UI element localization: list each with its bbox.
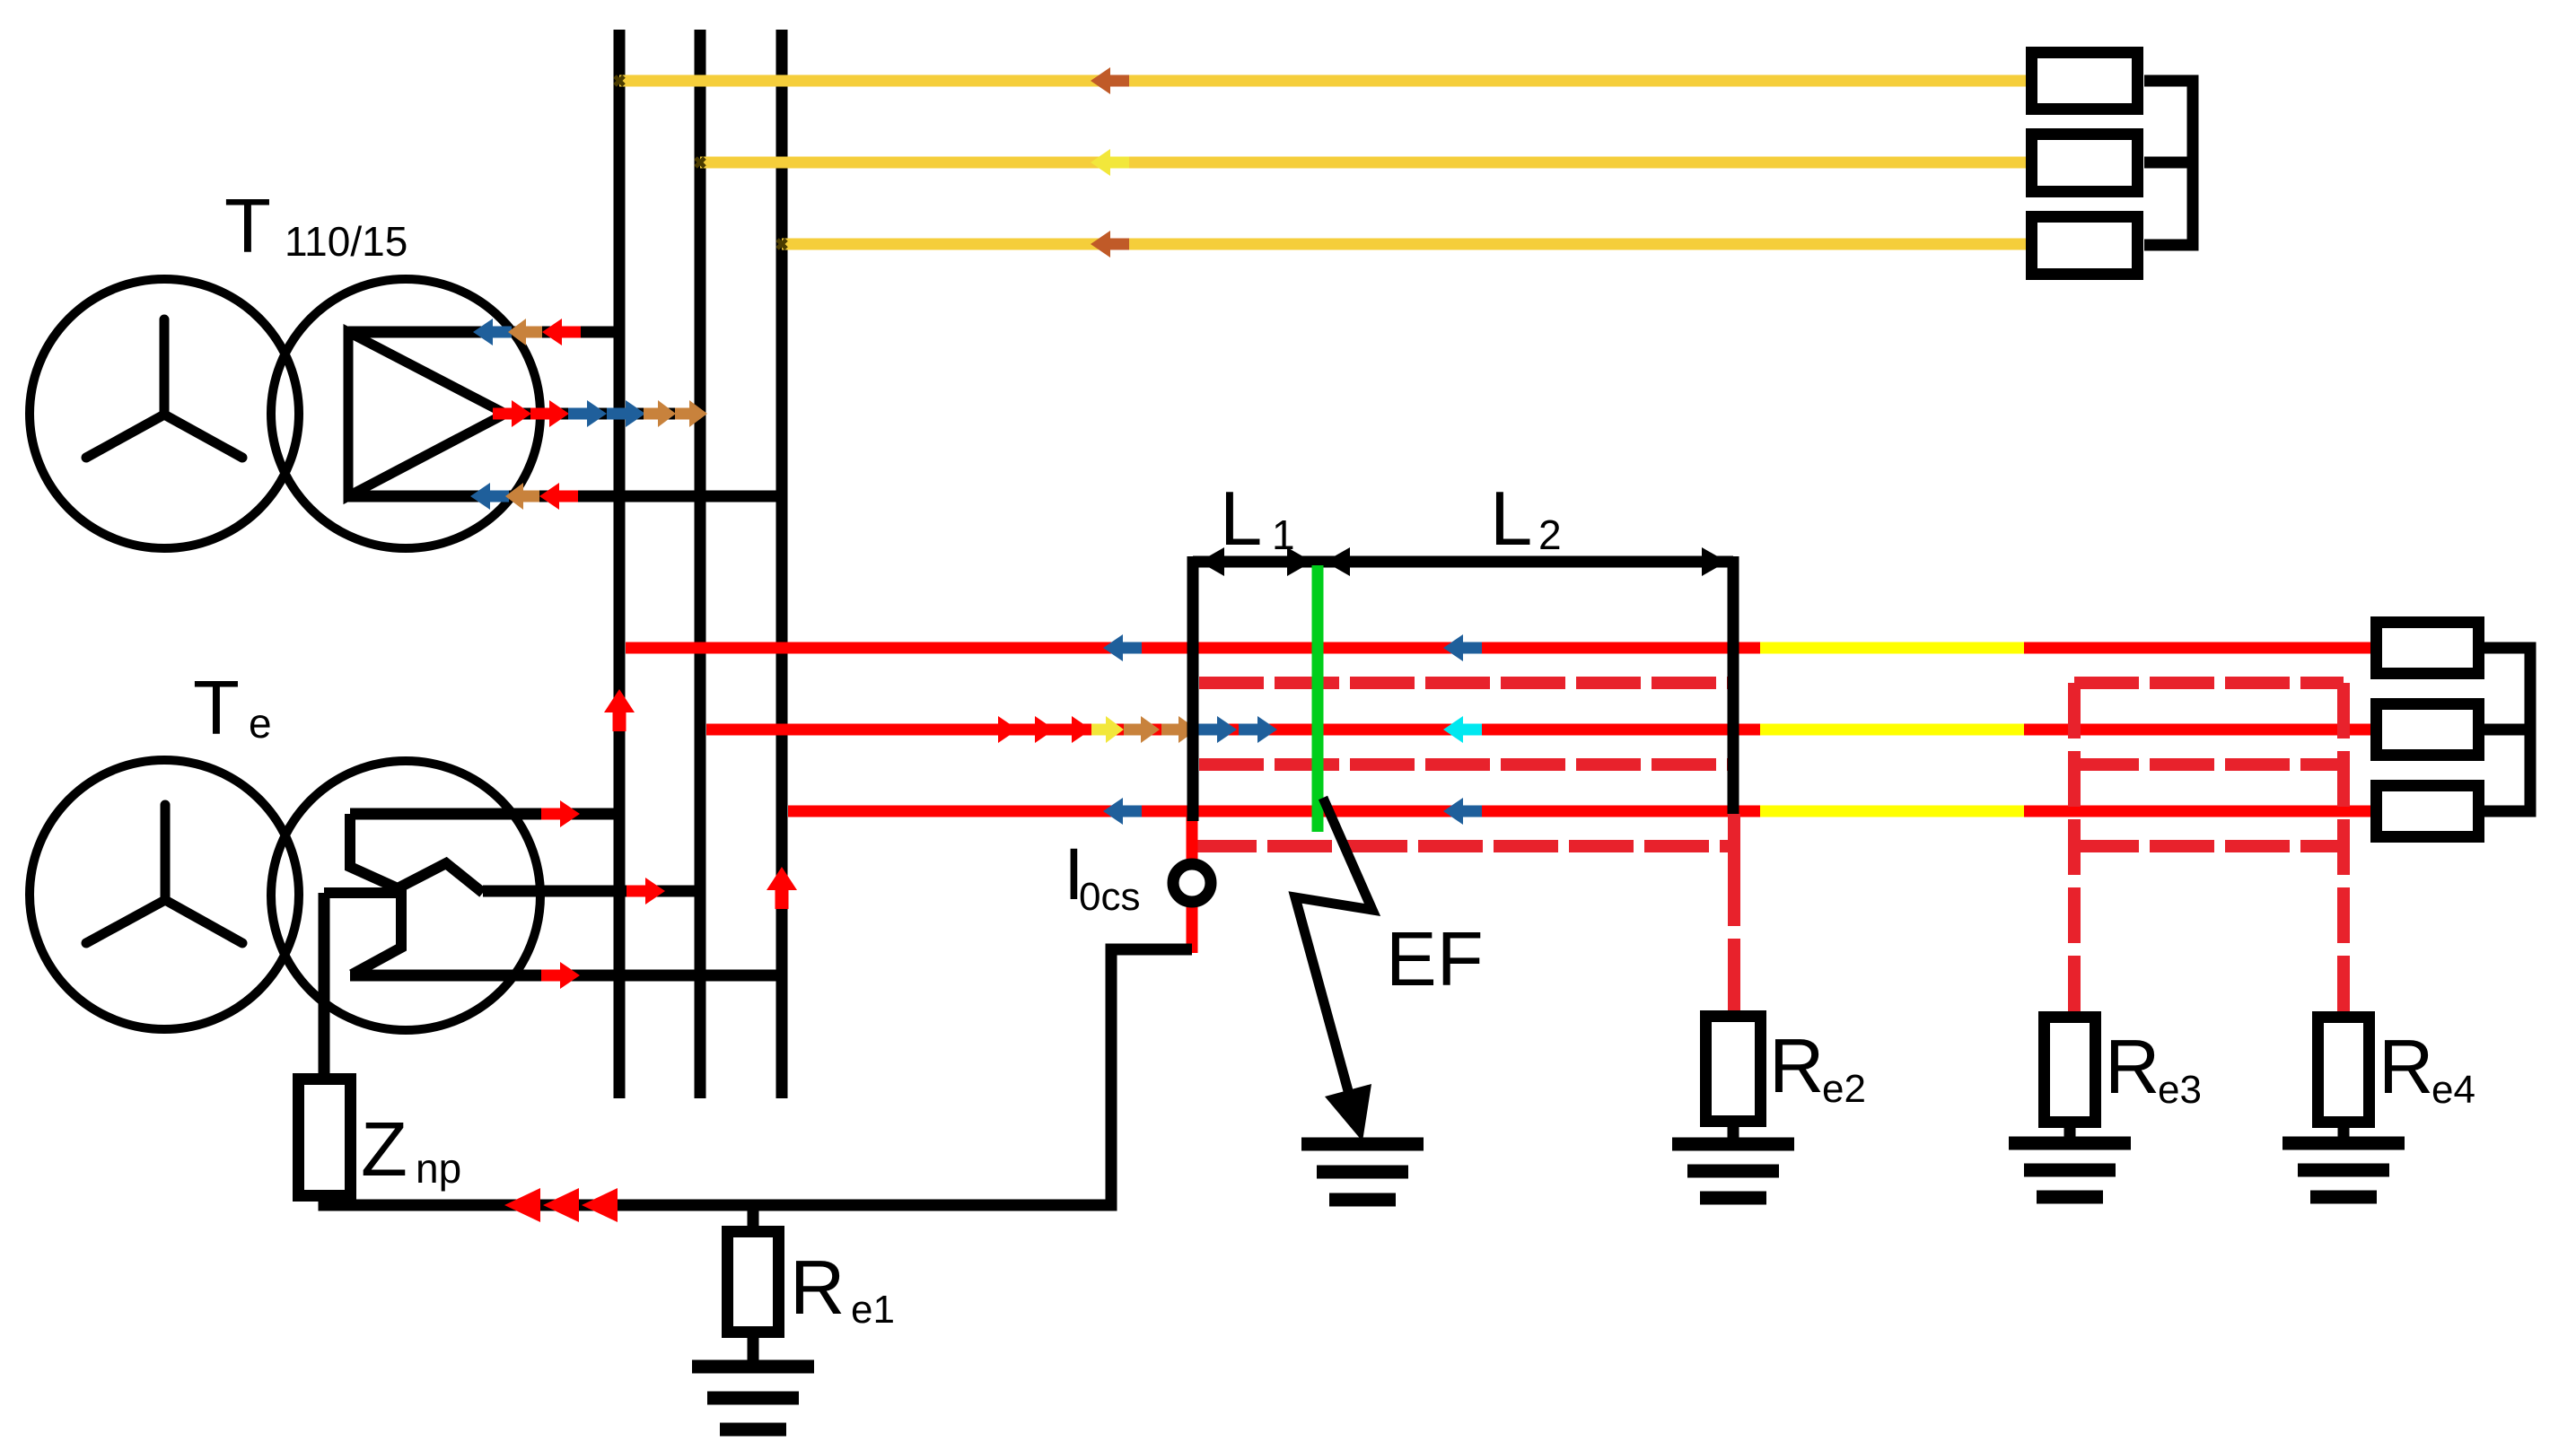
wire gold line 3 (busbar3 to top load) [782,239,2028,250]
wire feeder line2 red left section [706,724,1760,736]
transformer Te zigzag winding upper [350,814,483,893]
wire bottom load bracket [2484,648,2530,811]
transformer Te star winding [86,805,242,943]
wire dashed drop to Re3 [2068,683,2081,1011]
ground symbol Re1 [692,1360,814,1374]
arrow brown left on gold line1 [1091,67,1129,94]
svg-text:Z: Z [361,1107,407,1193]
dimension arrow at fault right side [1325,547,1350,576]
wire red drop from feeder line3 to sensor [1187,811,1198,953]
arrow red left on T110/15 top wire [542,319,581,345]
impedance Znp body [299,1079,351,1196]
arrow blue left on T110/15 bottom wire [470,483,509,510]
svg-text:R: R [790,1245,845,1331]
wire dashed lineA left section [1199,677,1734,689]
wire dashed loop top rung [2074,677,2344,689]
wire black return from sensor [324,949,1192,1205]
wire dashed lineB left section [1199,758,1734,771]
arrow red right 1 on line2 [979,716,1018,743]
svg-text:EF: EF [1386,917,1484,1002]
wire feeder line3 yellow section [1760,806,2024,817]
resistor Re2 body [1706,1017,1761,1122]
resistor Re3 body [2045,1018,2096,1123]
svg-text:T: T [193,666,240,751]
ground symbol EF [1301,1138,1424,1151]
wire T110/15 top phase to busbar1 [348,327,619,338]
ground symbol Re3 [2009,1137,2131,1150]
transformer Te zigzag circle [271,761,540,1030]
wire Te bottom phase to busbar3 [350,970,782,982]
arrow blue left on T110/15 top wire [473,319,512,345]
svg-text:T: T [224,184,271,269]
svg-text:R: R [2105,1025,2160,1110]
fault location green line [1312,565,1324,832]
arrow red up on busbar3 [767,867,797,909]
arrow brown right 2 on T110/15 middle wire [675,400,707,427]
resistor Re2 ground stub [1728,1127,1739,1144]
wire gold line 2 (busbar2 to top load) [700,157,2028,169]
arrow red left chevron2 on return wire [543,1188,579,1222]
node busbar2/gold junction [696,158,705,167]
wire top load bracket [2144,81,2193,245]
arrow blue right 2 on line2 [1239,716,1277,743]
arrow cyan left on line2 in L2 span [1443,716,1482,743]
arrow yellow left on gold line2 [1091,149,1129,176]
arrow brown left on gold line3 [1091,231,1129,258]
arrow brown left on T110/15 top wire [508,319,542,345]
resistor Re1 lead [748,1205,759,1226]
load block top rect1 [2032,53,2138,109]
dimension arrow right end [1702,547,1727,576]
busbar 2 [695,30,706,1098]
arrow brown left on T110/15 bottom wire [505,483,539,510]
arrow blue left on line1 before bracket [1103,634,1142,661]
wire feeder line3 red left section [788,806,1760,817]
svg-text:L: L [1220,476,1262,562]
busbar 1 [614,30,626,1098]
wire dashed lineC left section [1192,840,1734,852]
wire dashed loop bottom rung [2074,840,2344,852]
svg-text:0cs: 0cs [1079,875,1140,919]
wire feeder line1 red left section [626,642,1760,654]
arrow red right 2 on line2 [1016,716,1055,743]
arrow red right on Te bottom wire [541,962,580,989]
node busbar1/gold junction [615,76,624,85]
svg-text:e3: e3 [2158,1068,2202,1112]
wire feeder line2 red right section [2024,724,2372,736]
transformer T110/15 secondary circle [271,279,540,548]
dimension bracket right [1728,556,1739,814]
dimension line L1-L2 [1193,556,1733,568]
svg-text:L: L [1490,476,1532,562]
transformer T110/15 star winding [86,319,242,458]
arrow red right 3 on line2 [1053,716,1091,743]
earth fault EF bolt [1295,798,1372,1117]
ground symbol Re2 [1672,1138,1794,1151]
arrow red left chevron1 on return wire [504,1188,540,1222]
arrow brown right 1 on T110/15 middle wire [644,400,676,427]
arrow red up on busbar1 [604,689,635,731]
svg-text:1: 1 [1272,511,1295,558]
sensor I0cs ring [1173,864,1211,902]
resistor Re4 body [2318,1018,2370,1123]
arrow brown right 1 on line2 [1124,716,1160,743]
arrow blue left on line1 in L2 span [1443,634,1482,661]
wire feeder line1 red right section [2024,642,2372,654]
wire T110/15 middle phase to busbar2 [505,408,700,420]
arrow blue left on line3 before bracket [1103,798,1142,825]
svg-text:e1: e1 [851,1288,895,1332]
dimension arrow left end [1199,547,1224,576]
node busbar3/gold junction [777,240,786,249]
resistor Re1 ground stub [748,1338,759,1367]
wire Te middle phase to busbar2 [483,886,700,897]
arrow brown right 2 on line2 [1161,716,1197,743]
transformer Te zigzag winding lower [324,893,401,974]
busbar 3 [776,30,788,1098]
resistor Re3 ground stub [2064,1126,2076,1143]
arrow blue right 1 on line2 [1198,716,1237,743]
transformer T110/15 delta winding [348,332,505,496]
svg-text:e4: e4 [2431,1068,2475,1112]
svg-text:R: R [1769,1024,1824,1109]
wire gold line 1 (busbar1 to top load) [619,75,2028,87]
ground symbol Re4 [2282,1137,2405,1150]
load block top rect3 [2032,217,2138,275]
transformer T110/15 primary circle [30,279,299,548]
wire dashed drop to Re2 [1728,814,1740,1010]
wire Te neutral to Znp [319,893,330,1077]
arrow blue right 2 on T110/15 middle wire [607,400,645,427]
svg-text:np: np [416,1145,461,1192]
wire feeder line1 yellow section [1760,642,2024,654]
arrow red left chevron3 on return wire [582,1188,618,1222]
wire Te top phase to busbar1 [350,808,619,820]
arrow yellow right on line2 [1091,716,1124,743]
wire dashed loop middle rung [2074,758,2344,771]
arrow blue right 1 on T110/15 middle wire [568,400,607,427]
transformer Te primary circle [30,760,299,1029]
dimension bracket left [1187,556,1199,821]
arrow blue left on line3 in L2 span [1443,798,1482,825]
svg-text:e2: e2 [1822,1067,1866,1111]
resistor Re1 body [728,1232,779,1333]
wire T110/15 bottom phase to busbar3 [348,491,782,503]
svg-text:e: e [249,700,272,747]
arrow red right 1 on T110/15 middle wire [493,400,531,427]
load block bottom rect2 [2377,704,2479,756]
resistor Re4 ground stub [2338,1126,2350,1143]
svg-text:R: R [2379,1025,2433,1110]
arrow red right 2 on T110/15 middle wire [530,400,569,427]
earth fault EF arrowhead [1325,1084,1371,1141]
arrow red right on Te top wire [541,800,580,827]
dimension arrow at fault left side [1287,547,1312,576]
svg-text:110/15: 110/15 [285,218,407,265]
wire feeder line3 red right section [2024,806,2372,817]
svg-text:2: 2 [1538,511,1562,558]
load block bottom rect3 [2377,786,2479,837]
wire dashed drop to Re4 [2337,683,2350,1011]
arrow red left on T110/15 bottom wire [539,483,578,510]
arrow red right on Te middle wire [626,878,665,905]
load block bottom rect1 [2377,623,2479,674]
load block top rect2 [2032,135,2138,192]
wire feeder line2 yellow section [1760,724,2024,736]
